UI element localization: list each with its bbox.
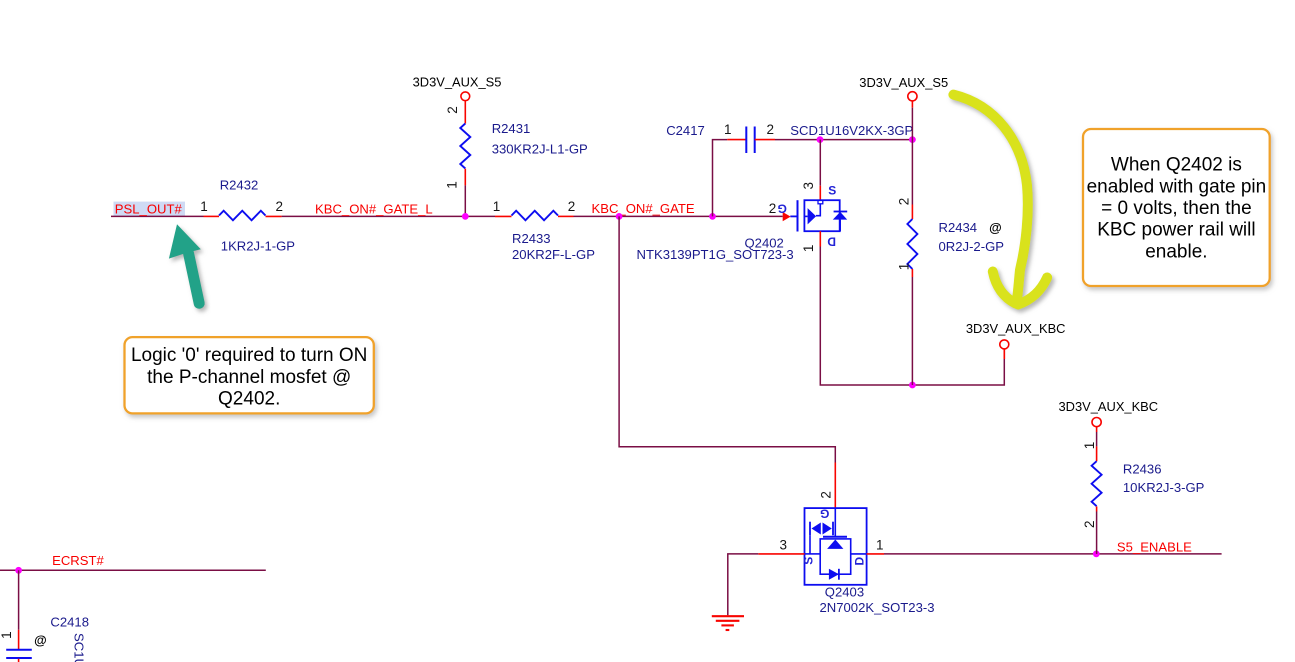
svg-text:@: @ <box>989 220 1002 235</box>
svg-text:NTK3139PT1G_SOT723-3: NTK3139PT1G_SOT723-3 <box>637 247 794 262</box>
svg-text:When Q2402 is: When Q2402 is <box>1111 155 1242 176</box>
svg-text:2: 2 <box>276 199 284 214</box>
svg-text:R2433: R2433 <box>512 231 551 246</box>
junction node S5_ENABLE <box>1093 551 1100 558</box>
net label PSL_OUT# highlight <box>114 202 186 217</box>
svg-text:KBC power rail will: KBC power rail will <box>1097 220 1255 241</box>
svg-text:3: 3 <box>801 182 816 190</box>
svg-text:R2434: R2434 <box>939 220 978 235</box>
transistor Q2403 (N-ch MOSFET) <box>779 491 934 615</box>
power port 3D3V_AUX_S5 (left) <box>413 74 502 123</box>
svg-text:Q2403: Q2403 <box>825 585 864 600</box>
svg-text:0R2J-2-GP: 0R2J-2-GP <box>939 239 1005 254</box>
wire source column <box>819 140 821 186</box>
wire KBC_ON#_GATE_L <box>282 215 495 217</box>
callout box right <box>1083 129 1270 286</box>
svg-text:SCD1U16V2KX-3GP: SCD1U16V2KX-3GP <box>790 123 913 138</box>
svg-text:10KR2J-3-GP: 10KR2J-3-GP <box>1123 480 1205 495</box>
green arrow annotation <box>169 224 201 303</box>
svg-text:1: 1 <box>1082 442 1097 450</box>
junction node KBC_ON#_GATE_L <box>462 213 469 220</box>
wire R2434 to drain rail <box>911 277 913 385</box>
svg-text:Logic '0' required to turn ON: Logic '0' required to turn ON <box>131 345 367 366</box>
svg-text:1: 1 <box>493 199 501 214</box>
svg-text:1: 1 <box>897 263 912 271</box>
resistor R2433 <box>493 199 595 262</box>
svg-text:20KR2F-L-GP: 20KR2F-L-GP <box>512 247 595 262</box>
svg-text:G: G <box>778 201 787 215</box>
svg-text:Q2402.: Q2402. <box>218 389 280 410</box>
svg-text:S: S <box>802 557 816 565</box>
svg-text:S5_ENABLE: S5_ENABLE <box>1117 539 1192 554</box>
capacitor C2418 <box>0 570 89 662</box>
svg-text:330KR2J-L1-GP: 330KR2J-L1-GP <box>492 141 588 156</box>
svg-text:2: 2 <box>568 199 576 214</box>
svg-text:G: G <box>820 506 829 520</box>
wire cap to power column <box>775 139 912 141</box>
svg-text:C2418: C2418 <box>50 615 89 630</box>
power port 3D3V_AUX_KBC (right) <box>1059 399 1159 447</box>
wire Q2403 drain to S5_ENABLE <box>867 553 884 555</box>
svg-text:D: D <box>827 235 836 249</box>
wire drain column <box>819 231 821 246</box>
power port 3D3V_AUX_KBC (mid) <box>966 321 1066 359</box>
resistor R2434 <box>897 198 1005 277</box>
svg-text:D: D <box>852 556 866 565</box>
svg-text:1: 1 <box>801 245 816 253</box>
junction node gate branch <box>616 213 623 220</box>
svg-text:1KR2J-1-GP: 1KR2J-1-GP <box>221 239 295 254</box>
svg-text:3D3V_AUX_S5: 3D3V_AUX_S5 <box>859 75 948 90</box>
callout box left <box>125 337 374 413</box>
wire ECRST# <box>0 569 266 571</box>
svg-text:2: 2 <box>767 122 775 137</box>
svg-text:C2417: C2417 <box>666 123 705 138</box>
svg-text:1: 1 <box>0 631 14 639</box>
wire Q2403 source to ground <box>758 553 804 555</box>
svg-text:ECRST#: ECRST# <box>52 553 104 568</box>
junction node power column <box>909 136 916 143</box>
svg-text:KBC_ON#_GATE: KBC_ON#_GATE <box>592 201 695 216</box>
wire cap branch up <box>713 140 728 217</box>
svg-text:2: 2 <box>1082 520 1097 528</box>
junction node source <box>817 136 824 143</box>
wire gate branch down to Q2403 <box>619 216 835 462</box>
svg-text:@: @ <box>34 633 47 648</box>
svg-text:3: 3 <box>779 538 787 553</box>
svg-text:the P-channel mosfet @: the P-channel mosfet @ <box>147 367 351 388</box>
resistor R2436 <box>1082 442 1205 528</box>
svg-text:3D3V_AUX_S5: 3D3V_AUX_S5 <box>413 74 502 89</box>
svg-text:3D3V_AUX_KBC: 3D3V_AUX_KBC <box>1059 399 1159 414</box>
wire R2431 to junction <box>464 185 466 216</box>
wire PSL_OUT# segment <box>111 215 204 217</box>
svg-text:2: 2 <box>819 491 834 499</box>
resistor R2432 <box>200 178 295 254</box>
svg-text:KBC_ON#_GATE_L: KBC_ON#_GATE_L <box>315 202 433 217</box>
svg-text:2: 2 <box>769 201 777 216</box>
svg-text:3D3V_AUX_KBC: 3D3V_AUX_KBC <box>966 321 1066 336</box>
svg-text:1: 1 <box>200 199 208 214</box>
svg-text:1: 1 <box>876 538 884 553</box>
svg-text:enabled with gate pin: enabled with gate pin <box>1087 176 1267 197</box>
wire R2436 to S5_ENABLE <box>1096 512 1098 554</box>
svg-text:S: S <box>828 184 836 198</box>
svg-text:1: 1 <box>724 122 732 137</box>
junction node cap branch <box>709 213 716 220</box>
svg-text:R2431: R2431 <box>492 121 531 136</box>
ground <box>712 616 744 630</box>
wire power column down <box>911 108 913 205</box>
svg-text:SC1U: SC1U <box>72 633 87 662</box>
transistor Q2402 (P-ch MOSFET) <box>637 182 848 262</box>
junction node drain rail <box>909 382 916 389</box>
svg-text:2: 2 <box>897 198 912 206</box>
svg-text:PSL_OUT#: PSL_OUT# <box>115 201 183 216</box>
svg-text:2: 2 <box>445 106 460 114</box>
svg-text:2N7002K_SOT23-3: 2N7002K_SOT23-3 <box>820 600 935 615</box>
yellow arrow annotation <box>953 95 1047 305</box>
junction node ECRST# <box>15 567 22 574</box>
svg-text:enable.: enable. <box>1145 241 1207 262</box>
pin arrow (gate port marker) <box>783 212 791 221</box>
svg-text:= 0 volts, then the: = 0 volts, then the <box>1101 198 1252 219</box>
svg-text:R2436: R2436 <box>1123 462 1162 477</box>
svg-text:R2432: R2432 <box>220 178 259 193</box>
resistor R2431 <box>444 106 588 189</box>
svg-text:1: 1 <box>444 181 459 189</box>
capacitor C2417 <box>666 122 913 153</box>
wire KBC_ON#_GATE <box>574 215 783 217</box>
power port 3D3V_AUX_S5 (right) <box>859 75 948 108</box>
